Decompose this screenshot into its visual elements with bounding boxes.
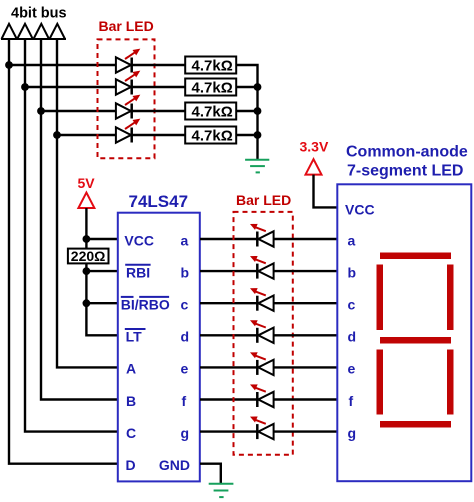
wire D3 to R3 bbox=[132, 110, 185, 112]
power 5V label bbox=[78, 175, 96, 191]
LED D8 bbox=[250, 320, 274, 343]
junction rail row3 bbox=[254, 107, 262, 115]
LED D10 bbox=[250, 384, 274, 407]
svg-text:c: c bbox=[181, 297, 189, 313]
wire e to LED D9 bbox=[200, 366, 257, 368]
display pin label e bbox=[348, 361, 356, 377]
wire 3.3V to display VCC bbox=[314, 175, 339, 208]
wire row4 to LED D4 bbox=[57, 134, 116, 136]
svg-text:4.7kΩ: 4.7kΩ bbox=[192, 103, 233, 120]
pin label a bbox=[181, 232, 189, 248]
wire resistor rail bbox=[236, 65, 257, 159]
svg-text:Bar LED: Bar LED bbox=[99, 18, 154, 34]
display pin label g bbox=[348, 425, 357, 441]
wire 5V to VCC rail bbox=[86, 208, 118, 335]
wire D11 to display g bbox=[274, 430, 337, 432]
power 3.3V label bbox=[300, 139, 329, 155]
LED D2 bbox=[116, 71, 140, 95]
pin label b bbox=[181, 264, 190, 280]
pin label C bbox=[126, 425, 136, 441]
wire bus bit3 (to A) bbox=[57, 39, 118, 367]
svg-text:BI/RBO: BI/RBO bbox=[121, 297, 170, 313]
pin label BI/RBO (overlines) bbox=[121, 297, 170, 313]
svg-text:D: D bbox=[126, 457, 136, 473]
svg-text:4.7kΩ: 4.7kΩ bbox=[192, 57, 233, 74]
pin label D bbox=[126, 457, 136, 473]
svg-text:A: A bbox=[126, 361, 136, 377]
junction bus row3 bbox=[37, 107, 45, 115]
display U2 7-segment box bbox=[337, 184, 471, 481]
svg-text:b: b bbox=[181, 264, 190, 280]
wire row1 to LED D1 bbox=[9, 64, 116, 66]
display pin label d bbox=[348, 329, 357, 345]
pin label e bbox=[181, 361, 189, 377]
wire bus bit1 (to C) bbox=[25, 39, 118, 432]
pin label GND bbox=[159, 457, 190, 473]
svg-text:a: a bbox=[181, 232, 189, 248]
resistor R4 4.7k bbox=[185, 127, 236, 145]
wire D4 to R4 bbox=[132, 134, 185, 136]
pin label c bbox=[181, 297, 189, 313]
Bar LED group 1 label bbox=[99, 18, 154, 34]
resistor R2 4.7k bbox=[185, 79, 236, 97]
display pin label VCC bbox=[345, 202, 375, 218]
bus entry triangles bbox=[1, 24, 66, 39]
svg-text:d: d bbox=[348, 329, 357, 345]
svg-text:RBI: RBI bbox=[126, 264, 150, 280]
LED D6 bbox=[250, 256, 274, 279]
wire D7 to display c bbox=[274, 302, 337, 304]
pin label LT (overline) bbox=[125, 329, 146, 345]
LED D11 bbox=[250, 417, 274, 440]
Bar LED group 2 dashed box bbox=[234, 212, 293, 455]
ground (74LS47 GND) bbox=[209, 484, 234, 497]
wire D9 to display e bbox=[274, 366, 337, 368]
wire D8 to display d bbox=[274, 334, 337, 336]
segment e (lower left) bbox=[377, 350, 384, 415]
display title Common-anode 7-segment LED bbox=[346, 144, 468, 180]
wire bus bit0 (to D) bbox=[9, 39, 118, 464]
LED D7 bbox=[250, 288, 274, 311]
display pin label f bbox=[349, 393, 354, 409]
wire D6 to display b bbox=[274, 270, 337, 272]
LED D9 bbox=[250, 352, 274, 375]
junction BI/RBO bbox=[83, 299, 91, 307]
Bar LED group 2 label bbox=[236, 192, 291, 208]
resistor 220 ohm bbox=[68, 248, 109, 264]
svg-text:e: e bbox=[181, 361, 189, 377]
display pin label a bbox=[348, 232, 356, 248]
LED D3 bbox=[116, 95, 140, 119]
svg-text:c: c bbox=[348, 297, 356, 313]
U1 title 74LS47 bbox=[129, 192, 189, 211]
svg-text:VCC: VCC bbox=[124, 232, 154, 248]
power 5V triangle bbox=[78, 193, 94, 208]
pin label RBI (overline) bbox=[125, 264, 150, 280]
pin label d bbox=[181, 329, 190, 345]
svg-text:74LS47: 74LS47 bbox=[129, 192, 189, 211]
wire g to LED D11 bbox=[200, 430, 257, 432]
wire D1 to R1 bbox=[132, 64, 185, 66]
Bar LED group 1 dashed box bbox=[98, 39, 155, 158]
power 3.3V triangle bbox=[306, 159, 322, 174]
wire D2 to R2 bbox=[132, 86, 185, 88]
wire row2 to LED D2 bbox=[25, 86, 116, 88]
svg-text:LT: LT bbox=[126, 329, 143, 345]
LED D4 bbox=[116, 119, 140, 143]
pin label A bbox=[126, 361, 136, 377]
svg-text:GND: GND bbox=[159, 457, 190, 473]
segment g (middle) bbox=[380, 337, 451, 344]
svg-text:f: f bbox=[182, 393, 187, 409]
wire f to LED D10 bbox=[200, 398, 257, 400]
junction rail row2 bbox=[254, 83, 262, 91]
node 4bit bus label bbox=[11, 6, 67, 22]
LED D5 bbox=[250, 224, 274, 247]
svg-text:3.3V: 3.3V bbox=[300, 139, 329, 155]
wire b to LED D6 bbox=[200, 270, 257, 272]
svg-text:d: d bbox=[181, 329, 190, 345]
wire GND pin to ground bbox=[200, 464, 221, 484]
pin label f bbox=[182, 393, 187, 409]
wire d to LED D8 bbox=[200, 334, 257, 336]
segment f (upper left) bbox=[377, 265, 384, 331]
display pin label b bbox=[348, 264, 357, 280]
junction bus row4 bbox=[53, 131, 61, 139]
svg-text:B: B bbox=[126, 393, 136, 409]
svg-text:4bit bus: 4bit bus bbox=[11, 6, 67, 22]
wire a to LED D5 bbox=[200, 238, 257, 240]
junction bus row2 bbox=[21, 83, 29, 91]
wire row3 to LED D3 bbox=[41, 110, 116, 112]
junction VCC bbox=[83, 235, 91, 243]
segment d (bottom) bbox=[380, 421, 451, 428]
svg-text:C: C bbox=[126, 425, 136, 441]
svg-text:VCC: VCC bbox=[345, 202, 375, 218]
segment c (lower right) bbox=[447, 350, 454, 415]
pin label B bbox=[126, 393, 136, 409]
svg-text:a: a bbox=[348, 232, 356, 248]
svg-text:Bar LED: Bar LED bbox=[236, 192, 291, 208]
display pin label c bbox=[348, 297, 356, 313]
op-amp U1 74LS47 box bbox=[118, 213, 200, 482]
resistor R3 4.7k bbox=[185, 103, 236, 121]
pin label VCC bbox=[124, 232, 154, 248]
ground (resistor rail) bbox=[245, 160, 269, 173]
svg-text:e: e bbox=[348, 361, 356, 377]
svg-text:5V: 5V bbox=[78, 175, 96, 191]
segment b (upper right) bbox=[447, 265, 454, 331]
svg-text:g: g bbox=[181, 425, 190, 441]
svg-text:220Ω: 220Ω bbox=[71, 248, 106, 264]
junction RBI bbox=[83, 267, 91, 275]
junction bus row1 bbox=[5, 61, 13, 69]
LED D1 bbox=[116, 49, 140, 73]
wire bus bit2 (to B) bbox=[41, 39, 118, 400]
svg-text:4.7kΩ: 4.7kΩ bbox=[192, 127, 233, 144]
svg-text:Common-anode: Common-anode bbox=[346, 144, 468, 161]
svg-text:7-segment LED: 7-segment LED bbox=[347, 163, 463, 180]
pin label g bbox=[181, 425, 190, 441]
junction rail row4 bbox=[254, 131, 262, 139]
svg-text:b: b bbox=[348, 264, 357, 280]
svg-text:f: f bbox=[349, 393, 354, 409]
segment a bbox=[380, 253, 451, 260]
svg-text:4.7kΩ: 4.7kΩ bbox=[192, 79, 233, 96]
wire D10 to display f bbox=[274, 398, 337, 400]
resistor R1 4.7k bbox=[185, 57, 236, 75]
wire D5 to display a bbox=[274, 238, 337, 240]
wire c to LED D7 bbox=[200, 302, 257, 304]
svg-text:g: g bbox=[348, 425, 357, 441]
